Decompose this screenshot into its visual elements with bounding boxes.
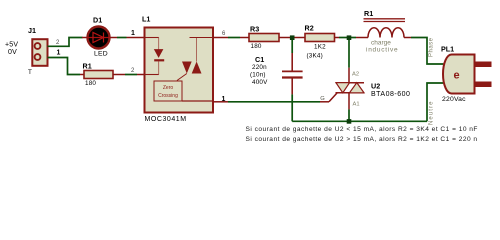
svg-text:C1: C1	[255, 55, 264, 64]
triac U2	[320, 38, 410, 110]
svg-text:G: G	[320, 96, 325, 102]
svg-text:LED: LED	[94, 51, 108, 58]
svg-text:180: 180	[251, 43, 262, 50]
wire R1 to L1 pin2	[125, 74, 137, 76]
wire inductor to PL1 phase	[411, 38, 443, 65]
svg-text:Si courant de gachette de U2 >: Si courant de gachette de U2 > 15 mA, al…	[246, 136, 478, 143]
svg-text:1K2: 1K2	[314, 44, 326, 51]
junction dot node A	[290, 35, 295, 40]
svg-text:charge: charge	[371, 40, 391, 47]
svg-text:PL1: PL1	[441, 45, 454, 54]
wire J1 pin1 to R1	[48, 58, 81, 75]
svg-text:R2: R2	[305, 24, 314, 33]
svg-text:MOC3041M: MOC3041M	[145, 116, 187, 123]
svg-text:Neutre: Neutre	[429, 100, 435, 125]
svg-text:A2: A2	[352, 72, 359, 78]
wire D1 to L1 pin1	[110, 37, 117, 39]
LED D1	[82, 16, 110, 58]
svg-text:220Vac: 220Vac	[442, 96, 466, 103]
svg-text:e: e	[454, 70, 460, 82]
L1 zero crossing box	[154, 81, 213, 101]
resistor R1	[80, 62, 125, 88]
resistor R3	[240, 25, 292, 51]
svg-text:(10n): (10n)	[250, 72, 266, 79]
resistor R2	[292, 24, 339, 60]
wire C1 to bottom bus	[291, 94, 293, 121]
connector J1	[28, 26, 48, 76]
svg-text:A1: A1	[353, 102, 360, 108]
optocoupler L1 MOC3041M	[142, 15, 213, 124]
wire J1 pin2 to D1	[48, 38, 83, 47]
svg-text:J1: J1	[28, 26, 36, 35]
wire L1 pin6 to R3	[213, 37, 228, 39]
L1 internal LED symbol	[145, 38, 165, 75]
svg-text:(3K4): (3K4)	[307, 53, 323, 60]
svg-text:1: 1	[131, 30, 135, 37]
junction dot node B	[347, 35, 352, 40]
svg-text:L1: L1	[142, 15, 150, 24]
wire node B to inductor	[349, 37, 356, 39]
svg-text:R1: R1	[364, 9, 373, 18]
svg-text:Zero: Zero	[163, 85, 174, 91]
svg-text:BTA08-600: BTA08-600	[371, 91, 410, 98]
svg-text:D1: D1	[93, 16, 102, 25]
svg-text:R1: R1	[83, 62, 92, 71]
junction dot bus	[347, 119, 352, 124]
svg-text:Crossing: Crossing	[158, 93, 178, 99]
inductor R1 charge inductive	[356, 9, 411, 54]
svg-text:T: T	[28, 69, 32, 76]
svg-text:+5V: +5V	[5, 42, 18, 49]
wire U2 A1 to bus	[348, 109, 350, 121]
bottom bus wire	[292, 120, 427, 122]
svg-text:180: 180	[85, 80, 96, 87]
svg-text:0V: 0V	[8, 49, 17, 56]
capacitor C1	[250, 38, 303, 95]
wire R2 to node B	[339, 37, 349, 39]
svg-text:U2: U2	[371, 82, 380, 91]
svg-text:Phase: Phase	[429, 37, 435, 57]
L1 internal triac symbol	[177, 38, 213, 81]
svg-text:1: 1	[57, 50, 61, 57]
svg-text:Si courant de gachette de U2 <: Si courant de gachette de U2 < 15 mA, al…	[246, 126, 478, 133]
svg-text:inductive: inductive	[366, 47, 398, 54]
svg-text:R3: R3	[250, 25, 259, 34]
plug PL1	[441, 45, 492, 104]
svg-text:220n: 220n	[252, 64, 267, 71]
wire L1 pin4 to gate	[213, 101, 228, 103]
svg-text:400V: 400V	[252, 79, 268, 86]
wire bus to PL1 neutre	[427, 83, 443, 121]
